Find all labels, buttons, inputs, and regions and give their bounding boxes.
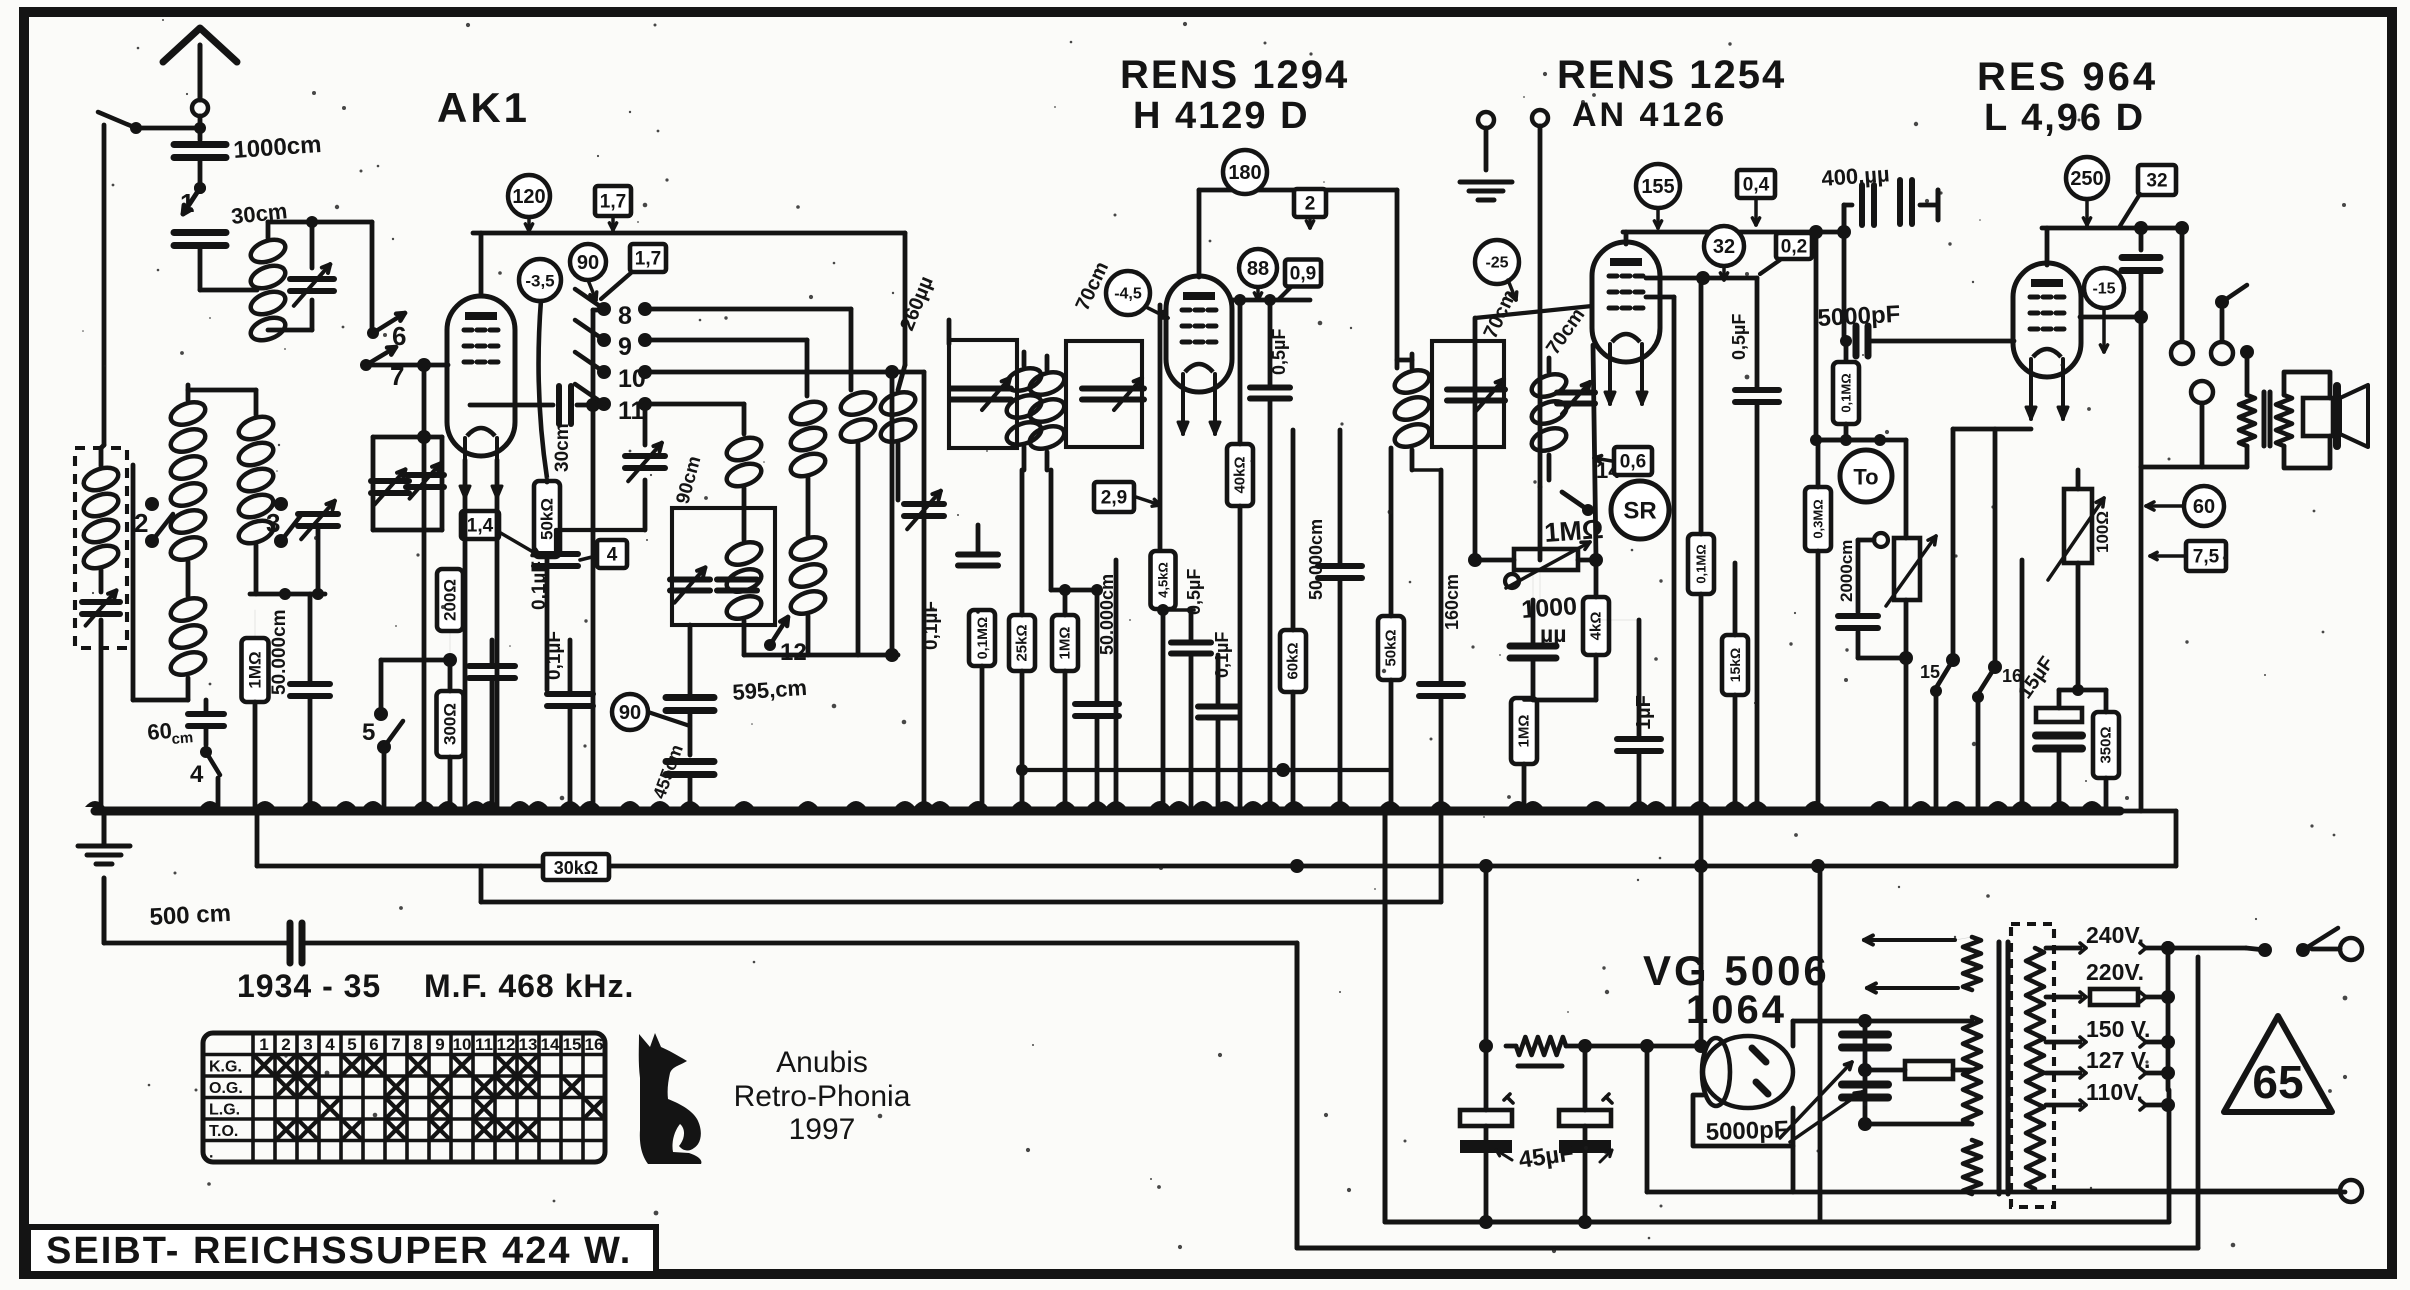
- svg-text:350Ω: 350Ω: [2098, 726, 2115, 763]
- svg-text:65: 65: [2252, 1056, 2303, 1108]
- svg-text:120: 120: [512, 186, 545, 208]
- svg-text:0,9: 0,9: [1290, 264, 1316, 285]
- svg-text:1: 1: [259, 1035, 268, 1054]
- svg-text:0,1µF: 0,1µF: [544, 631, 565, 680]
- svg-text:1934 - 35: 1934 - 35: [237, 968, 381, 1004]
- svg-text:7,5: 7,5: [2193, 547, 2220, 568]
- svg-text:0,3MΩ: 0,3MΩ: [1811, 499, 1826, 538]
- svg-text:M.F. 468 kHz.: M.F. 468 kHz.: [424, 968, 634, 1004]
- svg-text:AK1: AK1: [437, 84, 530, 131]
- svg-text:160cm: 160cm: [1442, 574, 1462, 630]
- svg-text:1MΩ: 1MΩ: [1516, 715, 1533, 748]
- svg-text:15kΩ: 15kΩ: [1727, 648, 1743, 683]
- svg-text:1,7: 1,7: [635, 249, 661, 270]
- svg-text:250: 250: [2070, 168, 2103, 190]
- svg-text:1,4: 1,4: [467, 516, 494, 537]
- svg-text:To: To: [1853, 465, 1878, 490]
- svg-text:-3,5: -3,5: [525, 272, 554, 291]
- svg-text:0,1µF: 0,1µF: [529, 561, 550, 610]
- svg-text:H 4129 D: H 4129 D: [1133, 95, 1310, 137]
- svg-text:50.000cm: 50.000cm: [1306, 519, 1326, 600]
- svg-text:0,4: 0,4: [1743, 175, 1770, 196]
- svg-text:5000pF: 5000pF: [1705, 1116, 1789, 1146]
- svg-text:1: 1: [180, 188, 194, 218]
- svg-text:0,1MΩ: 0,1MΩ: [1839, 373, 1854, 412]
- svg-text:-15: -15: [2092, 281, 2115, 298]
- svg-text:0,5µF: 0,5µF: [1184, 569, 1204, 615]
- svg-text:2: 2: [134, 508, 148, 538]
- svg-text:5: 5: [347, 1035, 356, 1054]
- svg-text:0,1µF: 0,1µF: [1212, 632, 1232, 678]
- svg-text:VG 5006: VG 5006: [1643, 947, 1830, 994]
- svg-text:100Ω: 100Ω: [2093, 511, 2112, 553]
- svg-text:2: 2: [1305, 194, 1316, 215]
- svg-text:4,5kΩ: 4,5kΩ: [1156, 562, 1171, 598]
- svg-text:0,2: 0,2: [1781, 237, 1807, 258]
- svg-text:-4,5: -4,5: [1114, 286, 1142, 303]
- svg-text:3: 3: [303, 1035, 312, 1054]
- svg-text:595,cm: 595,cm: [732, 675, 808, 705]
- svg-text:4: 4: [325, 1035, 335, 1054]
- svg-text:0,6: 0,6: [1620, 452, 1646, 473]
- svg-text:9: 9: [618, 333, 632, 361]
- svg-text:6: 6: [369, 1035, 378, 1054]
- svg-text:13: 13: [519, 1035, 538, 1054]
- svg-text:150 V.: 150 V.: [2086, 1016, 2150, 1042]
- svg-text:1MΩ: 1MΩ: [1057, 627, 1074, 660]
- svg-text:60: 60: [146, 718, 173, 745]
- svg-text:400,µµ: 400,µµ: [1821, 161, 1891, 191]
- svg-text:L 4,96 D: L 4,96 D: [1984, 97, 2145, 139]
- svg-text:14: 14: [541, 1035, 560, 1054]
- svg-text:4kΩ: 4kΩ: [1588, 612, 1605, 641]
- svg-text:SEIBT- REICHSSUPER 424 W.: SEIBT- REICHSSUPER 424 W.: [46, 1230, 632, 1272]
- svg-text:9: 9: [435, 1035, 444, 1054]
- svg-text:3: 3: [266, 508, 280, 538]
- svg-text:8: 8: [413, 1035, 422, 1054]
- svg-text:11: 11: [475, 1035, 493, 1054]
- svg-text:SR: SR: [1623, 498, 1656, 525]
- svg-text:16: 16: [585, 1035, 604, 1054]
- svg-text:5: 5: [362, 719, 375, 746]
- svg-text:1997: 1997: [789, 1113, 856, 1146]
- svg-text:60: 60: [2193, 496, 2215, 518]
- svg-text:2: 2: [281, 1035, 290, 1054]
- svg-text:Retro-Phonia: Retro-Phonia: [734, 1080, 911, 1113]
- svg-text:10: 10: [618, 365, 646, 393]
- svg-text:O.G.: O.G.: [209, 1080, 243, 1097]
- svg-text:11: 11: [618, 397, 645, 425]
- svg-text:4: 4: [607, 545, 618, 566]
- svg-text:L.G.: L.G.: [209, 1102, 240, 1119]
- svg-text:RENS 1254: RENS 1254: [1557, 53, 1786, 97]
- svg-text:4: 4: [190, 761, 204, 788]
- svg-text:300Ω: 300Ω: [441, 703, 460, 745]
- svg-text:60kΩ: 60kΩ: [1285, 642, 1302, 679]
- svg-text:25kΩ: 25kΩ: [1014, 624, 1031, 661]
- svg-text:127 V.: 127 V.: [2086, 1047, 2150, 1073]
- svg-text:-25: -25: [1485, 255, 1508, 272]
- svg-text:2000cm: 2000cm: [1837, 540, 1856, 602]
- svg-text:T.O.: T.O.: [209, 1123, 238, 1140]
- svg-text:12: 12: [497, 1035, 516, 1054]
- svg-text:1MΩ: 1MΩ: [246, 651, 265, 688]
- svg-text:10: 10: [453, 1035, 472, 1054]
- svg-text:15: 15: [563, 1035, 582, 1054]
- svg-text:50.000cm: 50.000cm: [269, 609, 290, 695]
- svg-text:Anubis: Anubis: [776, 1046, 868, 1079]
- svg-text:0,1MΩ: 0,1MΩ: [974, 617, 990, 659]
- svg-text:12: 12: [780, 639, 807, 666]
- svg-text:240V.: 240V.: [2086, 922, 2144, 948]
- svg-text:K.G.: K.G.: [209, 1059, 242, 1076]
- svg-text:7: 7: [391, 1035, 400, 1054]
- svg-text:30cm: 30cm: [552, 423, 573, 472]
- svg-text:220V.: 220V.: [2086, 959, 2144, 985]
- svg-text:0,1MΩ: 0,1MΩ: [1694, 544, 1709, 583]
- svg-text:1µF: 1µF: [1633, 695, 1655, 730]
- svg-text:200Ω: 200Ω: [441, 579, 460, 621]
- svg-text:RES 964: RES 964: [1977, 55, 2158, 99]
- svg-text:88: 88: [1247, 258, 1269, 280]
- svg-text:.: .: [209, 1145, 213, 1162]
- svg-text:RENS 1294: RENS 1294: [1120, 53, 1349, 97]
- svg-text:32: 32: [2146, 171, 2167, 192]
- svg-text:32: 32: [1713, 236, 1735, 258]
- svg-text:90: 90: [619, 702, 641, 724]
- svg-text:1000: 1000: [1520, 592, 1577, 624]
- svg-text:180: 180: [1228, 162, 1261, 184]
- svg-text:15: 15: [1920, 662, 1940, 682]
- svg-text:110V.: 110V.: [2086, 1079, 2143, 1105]
- svg-text:500 cm: 500 cm: [149, 900, 232, 931]
- svg-text:30kΩ: 30kΩ: [554, 858, 598, 878]
- svg-text:40kΩ: 40kΩ: [1232, 456, 1249, 493]
- svg-text:50kΩ: 50kΩ: [538, 498, 557, 540]
- svg-text:0,5µF: 0,5µF: [1729, 314, 1749, 360]
- svg-text:90: 90: [577, 252, 599, 274]
- svg-text:50kΩ: 50kΩ: [1383, 629, 1400, 666]
- svg-text:8: 8: [618, 302, 632, 330]
- svg-text:cm: cm: [171, 729, 194, 748]
- svg-text:0,1µF: 0,1µF: [921, 601, 942, 650]
- svg-text:AN 4126: AN 4126: [1572, 96, 1727, 134]
- svg-text:2,9: 2,9: [1101, 488, 1127, 509]
- svg-text:155: 155: [1641, 176, 1674, 198]
- svg-text:1,7: 1,7: [600, 192, 626, 213]
